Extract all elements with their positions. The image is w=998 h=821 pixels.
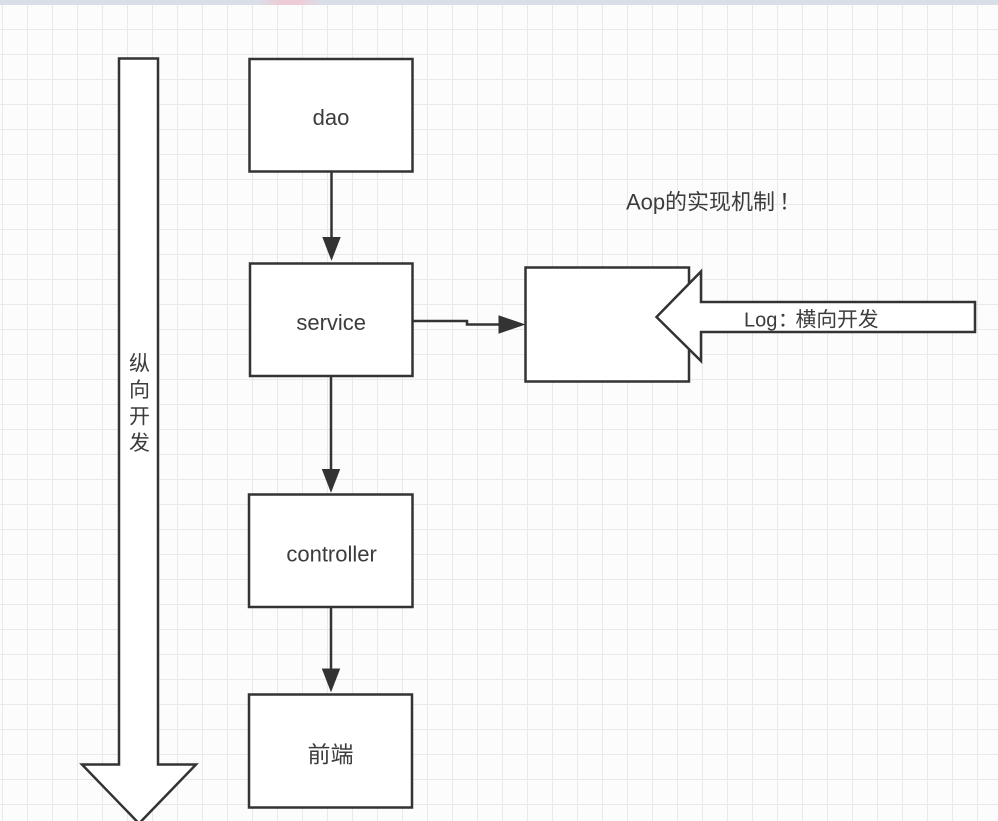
box dao <box>250 59 413 172</box>
title Aop的实现机制！ <box>626 190 786 215</box>
label 纵向开发 <box>130 353 150 452</box>
box service <box>250 264 413 377</box>
pink tab glow in strip <box>258 0 322 5</box>
wire service to aop box <box>413 316 525 333</box>
svg-text:Aop: Aop <box>626 190 665 215</box>
wire dao to service <box>323 172 340 260</box>
wire controller to frontend <box>323 607 340 691</box>
box 前端 (frontend) <box>249 695 412 808</box>
svg-text:dao: dao <box>313 105 350 130</box>
svg-text:service: service <box>296 310 366 335</box>
label 前端 <box>309 743 353 764</box>
svg-text:controller: controller <box>286 542 376 567</box>
block arrow Log 横向开发 (horizontal dev) <box>657 272 976 362</box>
box aop advice (log target) <box>526 268 690 382</box>
block arrow 纵向开发 (vertical dev) <box>82 59 196 821</box>
wire service to controller <box>323 377 340 492</box>
label Log：横向开发 <box>744 309 878 332</box>
box controller <box>249 495 413 608</box>
top window edge strip <box>0 0 998 5</box>
svg-text:Log: Log <box>744 310 777 332</box>
